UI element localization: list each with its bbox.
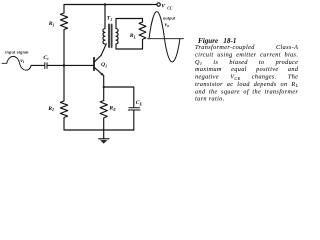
wire secondary loop: [116, 19, 143, 50]
output waveform centerline: [148, 38, 184, 40]
svg-text:output: output: [163, 16, 176, 20]
transformer T1 secondary winding: [116, 29, 118, 45]
svg-text:circuit using emitter current: circuit using emitter current bias.: [195, 52, 298, 59]
input signal sine: [2, 56, 31, 70]
svg-text:transistor ac load depends on: transistor ac load depends on RL: [195, 81, 299, 88]
transformer T1 primary winding: [103, 29, 105, 45]
svg-text:R1: R1: [48, 21, 55, 27]
output waveform sine: [149, 12, 180, 62]
svg-text:vi: vi: [20, 58, 25, 64]
wire input to capacitor: [31, 64, 44, 66]
transistor Q1: [93, 58, 95, 70]
svg-text:RL: RL: [129, 33, 137, 39]
svg-text:Q1: Q1: [101, 62, 107, 68]
transformer T1 core: [109, 25, 112, 48]
svg-text:vo: vo: [165, 22, 170, 28]
svg-text:V: V: [161, 4, 166, 10]
svg-text:and the square of the transfor: and the square of the transformer: [195, 88, 299, 95]
svg-text:Cc: Cc: [43, 55, 49, 61]
junction node emitter: [103, 86, 105, 88]
svg-text:CE: CE: [136, 100, 143, 106]
ground: [99, 130, 109, 139]
svg-text:maximum equal positive and: maximum equal positive and: [195, 66, 299, 73]
resistor R2: [60, 65, 67, 130]
resistor RE: [100, 101, 107, 131]
resistor RL: [139, 19, 146, 50]
wire bottom rail: [64, 129, 134, 131]
wire top rail VCC: [64, 4, 157, 6]
svg-text:turn ratio.: turn ratio.: [195, 96, 225, 103]
svg-text:T1: T1: [107, 16, 112, 22]
svg-text:RE: RE: [108, 106, 116, 112]
transformer T1 primary lead: [104, 5, 106, 29]
wire emitter down: [103, 76, 105, 101]
svg-text:Q1 is biased to produce: Q1 is biased to produce: [195, 59, 298, 66]
svg-text:CC: CC: [167, 6, 173, 10]
ground triangle: [100, 140, 107, 144]
svg-text:Transformer-coupled Class-A: Transformer-coupled Class-A: [195, 44, 298, 51]
transistor Q1 emitter arrowhead: [101, 73, 104, 76]
svg-text:R2: R2: [47, 106, 54, 112]
svg-text:input signal: input signal: [5, 50, 28, 54]
junction node collector rail: [104, 3, 107, 6]
wire emitter node to CE: [104, 87, 134, 107]
capacitor CE: [128, 108, 140, 110]
junction node base: [63, 64, 66, 67]
terminal VCC: [157, 3, 160, 6]
wire capacitor to base: [48, 64, 94, 66]
resistor R1: [60, 5, 67, 66]
svg-text:negative VCE changes. The: negative VCE changes. The: [195, 74, 298, 81]
capacitor Cc: [45, 63, 47, 69]
wire CE to bottom rail: [133, 111, 135, 131]
